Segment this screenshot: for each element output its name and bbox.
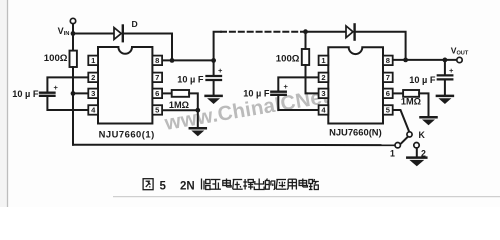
svg-text:+: +: [449, 66, 454, 75]
svg-text:D: D: [132, 19, 138, 29]
capacitor 10uF output: [438, 74, 453, 76]
pin 5 U1: [152, 105, 162, 115]
resistor 100ohm stage N: [305, 32, 307, 49]
wire VIN to diode D anode: [73, 33, 114, 35]
glyph zheng: [210, 180, 221, 190]
wire 100ohm stageN to pin3: [306, 65, 319, 93]
glyph ying: [276, 180, 286, 190]
svg-text:7: 7: [386, 73, 390, 82]
svg-text:3: 3: [321, 89, 325, 98]
diode D2: [346, 26, 353, 38]
svg-text:10 µ F: 10 µ F: [409, 75, 436, 85]
wire contact 2 to ground: [416, 148, 418, 157]
ground stage1 pin5: [190, 128, 206, 136]
pin 6 U1: [152, 89, 162, 99]
switch contact 1: [395, 143, 400, 148]
diode D: [114, 28, 121, 40]
pin numbers: [91, 56, 391, 115]
ground switch contact 2: [407, 158, 426, 167]
wire pin6 stage1: [162, 92, 172, 94]
glyph de: [265, 179, 274, 190]
wire pin6 stage N: [393, 92, 404, 94]
resistor 1Mohm stage N: [403, 90, 419, 97]
svg-text:K: K: [419, 130, 426, 140]
wire pin5 node to ground: [197, 110, 199, 127]
svg-text:+: +: [218, 66, 223, 75]
switch K pole: [407, 132, 412, 137]
svg-text:100Ω: 100Ω: [44, 53, 68, 64]
pin 8 U2: [383, 56, 393, 66]
resistor R 100ohm stage1: [72, 34, 74, 51]
pin 4 U1: [88, 105, 98, 115]
svg-text:8: 8: [155, 56, 159, 65]
glyph lu: [309, 179, 319, 190]
terminal VIN: [70, 18, 75, 23]
node pin3 junction stage1: [71, 91, 76, 96]
wire pin5 stage1: [162, 109, 198, 111]
svg-text:NJU7660(1): NJU7660(1): [99, 129, 155, 140]
svg-text:8: 8: [386, 56, 390, 65]
svg-text:1: 1: [390, 149, 395, 159]
glyph yong: [287, 179, 296, 189]
capacitor 10uF stage N pump: [271, 91, 286, 93]
wire bottom rail to switch contact 1: [73, 144, 395, 146]
svg-text:1MΩ: 1MΩ: [401, 96, 421, 106]
svg-text:+: +: [54, 83, 59, 92]
svg-text:10 µ F: 10 µ F: [12, 89, 39, 99]
node pin8/diode junction stage1: [170, 58, 175, 63]
wire cap to pin4 stage N: [278, 96, 318, 110]
svg-text:1MΩ: 1MΩ: [169, 100, 189, 110]
wire 100ohm to bottom rail: [72, 67, 74, 145]
wire cap to ground: [213, 81, 215, 95]
pin 6 U2: [383, 89, 393, 99]
pin 5 U2: [383, 105, 393, 115]
capacitor 10uF stage1 reservoir: [207, 75, 222, 77]
pin 8 U1: [152, 56, 162, 66]
pin boxes U1 left: [88, 56, 392, 115]
wire 1Mohm stageN to ground: [419, 93, 428, 116]
node pin8/cap junction stage1: [211, 58, 216, 63]
ground output cap: [437, 96, 453, 104]
svg-text:10 µ F: 10 µ F: [243, 89, 270, 99]
ground stage1 reservoir cap: [206, 96, 222, 104]
svg-text:7: 7: [155, 73, 159, 82]
wire pin8 net stage N to VOUT: [393, 59, 457, 61]
capacitor C1 10uF stage1 pump: [40, 92, 55, 94]
node pin5 junction stage1: [195, 108, 200, 113]
IC U2 NJU7660(N) body: [328, 47, 383, 123]
wire output cap to ground: [444, 80, 446, 95]
switch contact 2: [414, 143, 419, 148]
scan line bottom: [113, 196, 500, 198]
wire C1 to pin4 stage1: [47, 97, 88, 110]
glyph shu: [243, 179, 253, 190]
svg-text:3: 3: [91, 89, 95, 98]
wire riser to dashed bus: [214, 32, 221, 61]
pin 4 U2: [319, 105, 329, 115]
wire pin2 stage N: [278, 77, 318, 90]
IC U1 NJU7660(1) body: [98, 47, 152, 124]
svg-text:+: +: [284, 82, 289, 91]
svg-text:10 µ F: 10 µ F: [177, 75, 204, 85]
node diode2/pin8 junction: [403, 58, 408, 63]
wire diode2 cathode to corner: [355, 32, 406, 60]
svg-text:2: 2: [321, 73, 325, 82]
pin 2 U2: [319, 73, 329, 83]
switch K blade: [401, 137, 408, 144]
svg-text:6: 6: [386, 89, 390, 98]
wire pin3 stage1: [73, 92, 89, 94]
glyph dian: [223, 179, 231, 188]
node VIN junction: [71, 31, 76, 36]
wire VOUT junction to output cap: [444, 60, 446, 75]
svg-text:NJU7660(N): NJU7660(N): [329, 127, 382, 138]
ground 1Mohm stage N: [421, 117, 437, 125]
wire pin8 junction to reservoir cap stage1: [213, 60, 215, 75]
wire VIN stem: [72, 24, 74, 34]
svg-text:100Ω: 100Ω: [276, 54, 300, 65]
node output cap junction: [443, 58, 448, 63]
wire bus to diode 2 anode: [301, 31, 346, 33]
svg-text:2: 2: [91, 73, 95, 82]
terminal VOUT: [457, 57, 462, 62]
svg-text:VIN: VIN: [58, 26, 70, 37]
wire pin2 stage1: [47, 77, 88, 91]
wire pin8 net stage1: [162, 59, 214, 61]
pin 7 U1: [152, 73, 162, 83]
pin 7 U2: [383, 73, 393, 83]
pin 1 U1: [88, 56, 98, 66]
svg-text:5: 5: [160, 181, 167, 193]
pin 1 U2: [319, 56, 329, 66]
svg-text:6: 6: [155, 89, 159, 98]
svg-text:VOUT: VOUT: [451, 46, 469, 57]
glyph dian2: [299, 179, 307, 188]
wire diode D cathode to corner: [123, 34, 172, 61]
pin 2 U1: [88, 73, 98, 83]
pin 3 U2: [319, 89, 329, 99]
glyph ya: [233, 180, 243, 190]
wire 1Mohm to pin5 node: [189, 93, 198, 110]
svg-text:2N: 2N: [180, 180, 195, 192]
scan edge line left: [7, 0, 9, 207]
node dashed bus to stage N: [303, 29, 308, 34]
glyph tu: [143, 179, 153, 190]
svg-text:2: 2: [421, 149, 426, 159]
resistor 1Mohm stage1: [172, 90, 189, 97]
wire dashed continuation bus: [221, 31, 301, 33]
glyph chu: [254, 179, 264, 190]
wire pin5 stage N to switch pole: [393, 110, 410, 132]
glyph bei: [202, 179, 211, 190]
pin 3 U1: [88, 89, 98, 99]
caption 图5 2N倍正电压输出的应用电路: [143, 179, 153, 190]
